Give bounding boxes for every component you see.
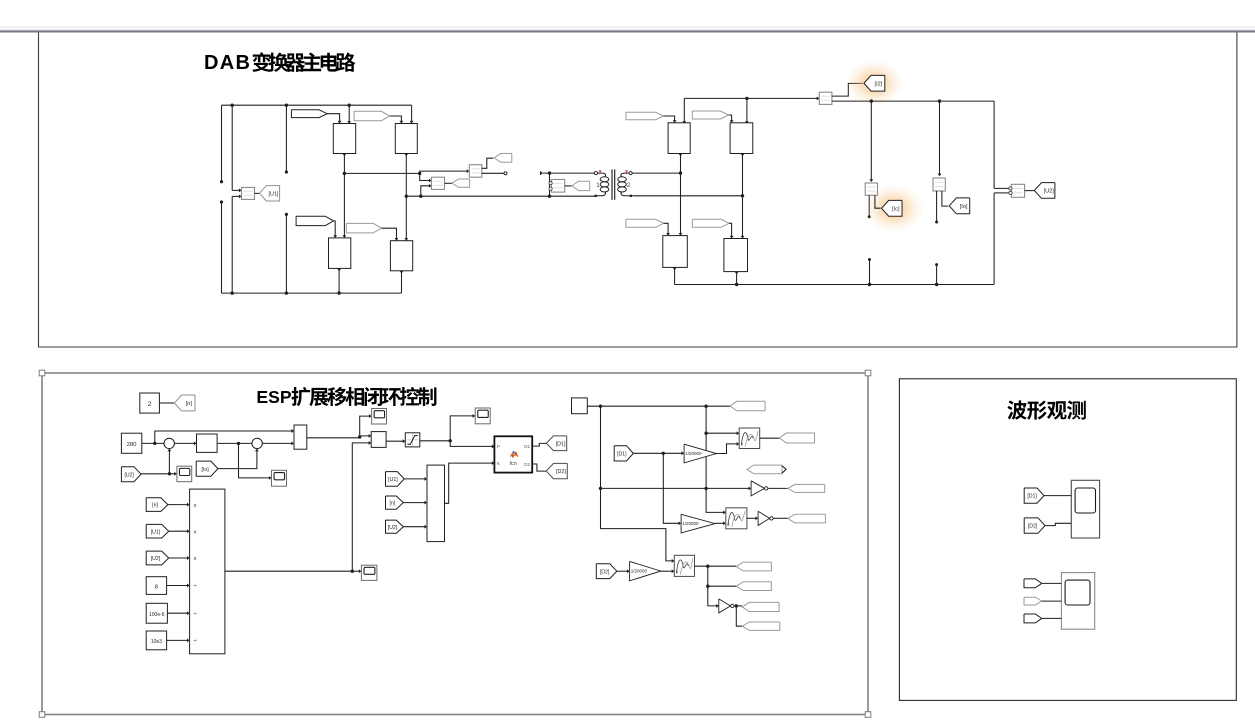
goto tag T8 — [742, 622, 780, 630]
wire right leg lower — [993, 193, 995, 285]
goto tag T2 — [779, 433, 814, 443]
from tag [D1] pulse — [614, 446, 633, 461]
wire to fcn P — [450, 441, 493, 447]
voltage measurement U2 — [1011, 184, 1024, 197]
wire gain2 to sine2 — [715, 522, 725, 524]
wire D2 to gain3 — [617, 570, 629, 572]
glow I2 — [846, 60, 904, 106]
current measurement Io — [933, 178, 945, 191]
wire Io to sum2 — [218, 450, 257, 469]
PI controller — [197, 434, 218, 452]
wire Ic physical dangling — [868, 195, 870, 216]
wire left DC source leg lower — [221, 202, 223, 293]
wire drain R2 — [746, 98, 748, 123]
wire D1 to scope — [1044, 495, 1071, 497]
wire source Q3 — [338, 268, 340, 293]
constant 280 — [121, 433, 141, 453]
goto tag T4 — [788, 514, 826, 523]
from tag [U2] — [386, 520, 404, 533]
divide block — [371, 432, 386, 448]
from tag gate Q2 — [354, 111, 390, 121]
wire down to sine2 — [706, 488, 725, 512]
transformer T1 — [594, 169, 632, 199]
wire I1 physical dangling — [482, 172, 504, 174]
saturation block — [405, 433, 420, 447]
wire sine1 out — [760, 437, 780, 439]
svg-text:÷: ÷ — [194, 584, 197, 590]
wire U1 output — [255, 192, 260, 194]
svg-text:P: P — [497, 444, 500, 449]
from tag [U2] low — [121, 467, 141, 482]
wire not3 out — [734, 605, 742, 607]
from tag w3 — [1024, 614, 1042, 623]
wire U2 to scope E — [141, 473, 176, 475]
svg-text:[U1]: [U1] — [151, 529, 161, 535]
svg-text:[n]: [n] — [152, 503, 158, 509]
svg-text:[U1]: [U1] — [388, 477, 398, 483]
svg-text:[D1]: [D1] — [556, 441, 566, 447]
wire PI to sum2 — [217, 442, 252, 444]
svg-text:D2: D2 — [524, 462, 530, 467]
sine block 3 — [674, 555, 694, 576]
glow Ic — [864, 185, 924, 233]
wire branch to scope D — [239, 443, 271, 478]
wire gain1 to sine1 — [716, 444, 738, 454]
constant 10e3 — [146, 631, 166, 650]
wire primary shunt — [549, 173, 551, 196]
wire source Q4 — [401, 271, 403, 293]
mosfet R3 — [663, 236, 688, 268]
svg-text:ESP: ESP — [256, 387, 291, 407]
wire gate Q4 — [382, 228, 397, 240]
svg-text:fcn: fcn — [510, 461, 517, 467]
sum block 2 — [252, 438, 262, 448]
sum block 1 — [164, 438, 174, 448]
goto tag primary V — [565, 185, 572, 187]
wire Io physical dangling — [936, 191, 938, 222]
goto tag [U1] — [259, 186, 279, 201]
from tag gate R3 — [626, 219, 664, 227]
wire left DC source leg upper — [221, 105, 223, 182]
wire divide to saturation — [386, 440, 404, 442]
wire leg Q2-Q4 — [405, 154, 407, 241]
matlab function block fcn — [494, 436, 532, 472]
from tag gate R2 — [692, 111, 728, 119]
wire gate R4 — [729, 223, 731, 237]
comparator block — [294, 425, 307, 449]
svg-text:[Io]: [Io] — [960, 204, 968, 210]
svg-text:2: 2 — [148, 401, 152, 408]
mosfet Q1 — [333, 124, 355, 154]
wire drain Q1 — [348, 105, 350, 123]
svg-text:[U2]: [U2] — [1044, 189, 1055, 195]
goto tag T6 — [736, 582, 771, 591]
svg-text:10e3: 10e3 — [151, 639, 162, 645]
scope big 2 — [1061, 573, 1094, 630]
svg-text:K: K — [497, 461, 500, 466]
wire sum2 to comp — [262, 442, 293, 444]
wire 280 to sum1 — [142, 442, 164, 444]
svg-text:÷: ÷ — [194, 611, 197, 617]
gain1 1/20000 — [684, 444, 716, 463]
from tag [n] product — [146, 498, 168, 512]
svg-text:100e-6: 100e-6 — [149, 612, 165, 618]
DAB area box — [39, 33, 1237, 348]
wire low link rail — [406, 195, 595, 197]
wire D1 to gain1 — [633, 452, 683, 454]
wire Ic signal — [875, 195, 881, 208]
wire product output — [225, 570, 352, 572]
svg-text:x: x — [194, 503, 197, 509]
wire top DC rail right bridge — [684, 97, 819, 99]
from tag [D1] wave — [1024, 488, 1044, 503]
svg-text:D1: D1 — [524, 444, 530, 449]
wire not1 out — [768, 487, 788, 489]
wire n to mux — [403, 502, 426, 504]
wire top DC rail left bridge — [222, 104, 412, 106]
constant 2 — [140, 393, 160, 413]
from tag gate R1 — [626, 112, 664, 120]
goto tag [Ic] — [882, 200, 903, 216]
not gate 2 — [758, 511, 770, 525]
wire to U2 - — [994, 192, 1009, 194]
wire branch gain2 — [663, 453, 680, 523]
wire gate R2 — [729, 115, 732, 122]
wire clock down-left — [600, 406, 602, 488]
wire branch to sum1 — [168, 450, 170, 474]
svg-text:[D2]: [D2] — [556, 469, 566, 475]
wire cap leg upper — [285, 105, 287, 172]
from tag w1 — [1024, 579, 1042, 588]
svg-text:1/20000: 1/20000 — [685, 451, 702, 456]
wire branch to scope A — [360, 416, 371, 437]
voltage measurement U1 — [242, 187, 255, 199]
scope A — [372, 409, 387, 425]
wire drain Q2 — [411, 105, 413, 123]
wire fcn D1 out — [532, 443, 546, 446]
wire inner bus lower (from U1 -) — [231, 196, 233, 293]
wire leg Q1-Q3 — [343, 154, 345, 238]
gain3 1/20000 — [630, 561, 661, 580]
wire right leg upper — [993, 101, 995, 188]
svg-text:[U2]: [U2] — [151, 556, 161, 562]
scope big 1 — [1071, 480, 1099, 538]
wire not2 out — [773, 517, 788, 519]
svg-text:[D1]: [D1] — [1027, 494, 1037, 500]
wire fcn D2 out — [532, 464, 546, 471]
mosfet R2 — [730, 123, 753, 154]
svg-text:[Io]: [Io] — [201, 467, 209, 473]
svg-text:[U2]: [U2] — [388, 525, 398, 531]
wire clock out — [587, 405, 730, 407]
wire I2 signal — [832, 83, 863, 96]
wire gate Q2 — [390, 116, 402, 123]
wire sine2 out — [747, 517, 757, 519]
current measurement I2 — [817, 96, 820, 100]
from tag [D2] wave — [1024, 518, 1045, 533]
from tag [Io] — [196, 461, 218, 476]
svg-text:8: 8 — [155, 584, 158, 590]
goto tag Up — [445, 182, 453, 184]
wire Io signal — [942, 191, 948, 206]
goto tag [D1] — [546, 436, 566, 451]
wire gain3 to sine3 — [661, 570, 674, 572]
mosfet Q4 — [390, 241, 412, 271]
voltage measurement Up — [432, 177, 445, 189]
wire Up - to low rail — [421, 186, 432, 196]
goto tag T7 — [742, 602, 779, 611]
from tag gate Q4 — [346, 223, 381, 233]
wire drain R1 — [683, 98, 685, 123]
wire sine3 branch down — [707, 566, 709, 586]
wire to not3 — [708, 586, 718, 606]
wire bottom DC rail left bridge — [222, 292, 402, 294]
current measurement I1 — [469, 165, 482, 178]
wire to Io meas — [939, 101, 941, 175]
from tag [U1] — [386, 472, 405, 487]
goto tag T3 — [788, 484, 825, 492]
from tag [n] — [386, 496, 404, 509]
wire not3 branch — [736, 606, 742, 626]
from tag [U2] product — [146, 551, 169, 565]
svg-text:[Ic]: [Ic] — [892, 206, 900, 212]
wire gate R1 — [664, 116, 675, 122]
mosfet R4 — [724, 239, 748, 272]
scope D — [272, 470, 287, 486]
svg-text:[n]: [n] — [390, 501, 396, 507]
from tag gate R4 — [692, 219, 729, 227]
mux block — [427, 465, 445, 541]
wire U2 to mux — [403, 526, 426, 528]
ESP area box — [39, 370, 871, 717]
svg-text:x: x — [194, 529, 197, 535]
goto tag T0 arrow — [747, 465, 782, 474]
wire 2 to n — [159, 402, 174, 404]
wire U1 to mux — [404, 478, 426, 480]
svg-text:÷: ÷ — [194, 639, 197, 645]
svg-text:[D2]: [D2] — [1028, 524, 1038, 530]
wire leg R2-R4 — [742, 154, 744, 239]
mosfet Q3 — [329, 238, 351, 269]
wire D2 to scope — [1045, 523, 1071, 525]
wire to Ic meas — [870, 101, 872, 181]
wire gate R3 — [664, 223, 668, 234]
wire horizontal NOT row — [601, 487, 751, 489]
product block — [190, 489, 225, 654]
from tag [U1] product — [146, 524, 169, 538]
wire I2 continuation rail — [832, 100, 994, 102]
svg-text:2: 2 — [627, 182, 631, 189]
mosfet Q2 — [395, 124, 417, 154]
from tag gate Q1 — [291, 110, 327, 118]
title waveform — [1007, 400, 1085, 419]
wire stub Io to rail — [936, 265, 938, 285]
wire 280 branch to comp — [155, 431, 293, 443]
from tag [D2] pulse — [596, 564, 617, 579]
waveform area box — [899, 379, 1236, 701]
not gate 1 — [751, 481, 764, 496]
wire stub Ic to rail — [869, 260, 871, 285]
scope E — [177, 466, 192, 482]
wire gate Q3 — [334, 221, 336, 237]
svg-text:[I2]: [I2] — [875, 81, 883, 87]
wire to I1 input — [420, 171, 469, 173]
current measurement Ic — [865, 183, 877, 195]
scope B — [475, 408, 490, 424]
top toolbar band — [0, 26, 1255, 31]
wire mux to fcn K — [445, 463, 494, 503]
svg-text:[D1]: [D1] — [617, 451, 627, 457]
wire U2 output — [1025, 190, 1035, 192]
wire sum1 to PI — [174, 442, 195, 444]
mosfet R1 — [668, 123, 690, 154]
wire bridge1 mid output — [344, 172, 419, 174]
wire I1 signal to tag — [482, 158, 493, 168]
from tag gate Q3 — [296, 216, 333, 225]
svg-text:[U1]: [U1] — [269, 191, 279, 197]
goto tag T1 — [730, 401, 765, 411]
sine block 2 — [726, 508, 747, 529]
wire dangling to transformer — [540, 171, 543, 176]
wire bottom rail right bridge — [675, 284, 995, 286]
goto tag [n] — [174, 395, 195, 411]
title ESP — [256, 387, 436, 407]
svg-text:1/20000: 1/20000 — [682, 521, 699, 526]
goto tag [U2] — [1034, 183, 1055, 199]
wire to Up + — [420, 173, 431, 180]
svg-text:[D2]: [D2] — [600, 569, 610, 575]
svg-text:x: x — [194, 556, 197, 562]
wire saturation out — [420, 440, 450, 442]
svg-text:1/20000: 1/20000 — [631, 569, 648, 574]
title DAB — [204, 52, 355, 74]
wire sine3 out — [695, 565, 737, 567]
wire leg R1-R3 — [680, 154, 682, 236]
goto tag T5 — [736, 562, 771, 571]
wire product up to divide — [352, 443, 370, 571]
wire gate Q1 — [327, 114, 339, 123]
svg-text:DAB: DAB — [204, 52, 251, 74]
goto tag [Io] — [949, 198, 970, 214]
scope C — [361, 565, 377, 580]
goto tag [I2] — [864, 75, 885, 91]
wire inner bus upper (to U1 +) — [231, 105, 233, 190]
wire to U2 + — [994, 187, 1009, 189]
svg-text:[n]: [n] — [186, 401, 193, 407]
wire branch to scope B — [450, 416, 474, 441]
wire comp output — [307, 437, 360, 439]
clock block — [572, 398, 588, 414]
wire clock down-mid — [705, 406, 707, 488]
wire cap leg lower — [285, 214, 287, 293]
wire source R3 — [674, 267, 676, 284]
wire source R4 — [736, 272, 738, 285]
wire secondary bottom — [632, 195, 742, 197]
voltage measurement primary — [551, 180, 564, 193]
sine block 1 — [739, 428, 760, 449]
svg-text:1: 1 — [596, 182, 600, 189]
svg-text:280: 280 — [127, 442, 137, 448]
svg-text:[U2]: [U2] — [124, 472, 134, 478]
goto tag [D2] — [546, 463, 567, 478]
constant 8 — [146, 577, 166, 595]
not gate 3 — [719, 599, 731, 613]
wire secondary top — [632, 172, 680, 174]
goto tag [I1] — [494, 154, 512, 163]
gain2 1/20000 — [681, 514, 715, 533]
constant 100e-6 — [146, 603, 167, 623]
from tag w2 — [1024, 597, 1042, 605]
